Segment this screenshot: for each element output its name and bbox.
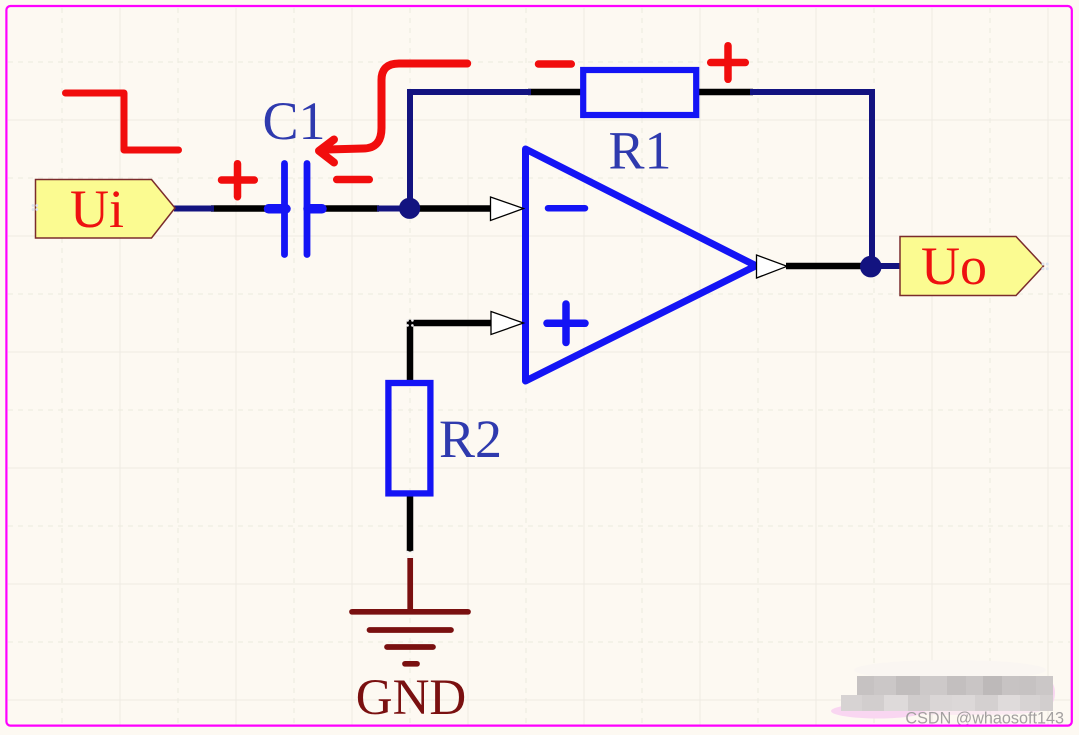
svg-text:R1: R1: [608, 121, 671, 181]
svg-text:GND: GND: [356, 670, 467, 726]
svg-text:C1: C1: [262, 91, 325, 151]
svg-text:R2: R2: [439, 409, 502, 469]
svg-text:Uo: Uo: [921, 236, 987, 296]
svg-text:Ui: Ui: [70, 179, 124, 239]
